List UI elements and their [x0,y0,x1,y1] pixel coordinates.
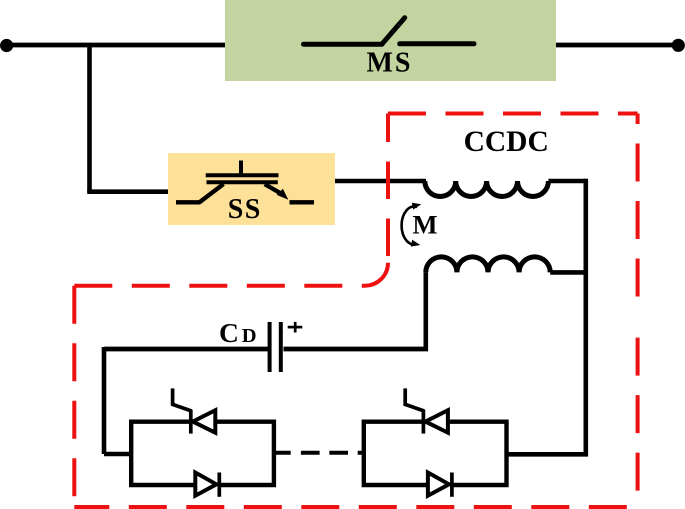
wire L1 to right rail [548,179,585,184]
right terminal node [672,39,685,52]
wire into module 1 [104,452,133,457]
CCDC red dashed boundary notch corner arc [365,263,388,286]
label CD [219,317,257,348]
svg-text:D: D [242,325,257,347]
wire capacitor left [104,347,268,352]
mutual coupling arrow M [402,203,422,247]
wire SS to primary inductor [335,179,426,184]
CCDC red dashed boundary bottom edge [74,505,637,509]
svg-text:C: C [219,317,239,348]
MS bypass switch background box [225,0,556,81]
wire capacitor right [284,347,429,352]
wire L2 left down to capacitor [423,272,428,351]
stub module 1 right [274,451,291,455]
wire junction vertical from top bus [87,43,92,192]
SS solid-state switch background box [168,153,335,225]
CCDC red dashed boundary right edge lower [636,318,640,507]
right vertical rail [583,179,588,457]
diode D1 [195,473,219,497]
CCDC red dashed boundary right edge upper [636,114,640,317]
dashed link between modules [301,451,364,455]
module 2 box [364,422,507,485]
CCDC red dashed boundary top edge [388,112,638,116]
inductor L1 primary winding [425,181,549,196]
CCDC red dashed boundary notch horizontal edge [74,284,365,288]
label SS [228,194,262,225]
wire to SS box [87,189,168,194]
label + polarity [288,322,303,333]
left vertical wire down to module 1 [102,347,107,454]
diode D2 [428,473,452,497]
capacitor CD plates [270,322,281,372]
svg-text:M: M [413,210,438,240]
switch MS [304,18,475,45]
wire module 2 to right rail [507,452,589,457]
label M [413,210,438,240]
label CCDC [464,126,549,158]
CCDC red dashed boundary left edge [72,286,76,507]
inductor L2 secondary winding [426,257,550,273]
CCDC red dashed boundary notch vertical edge [386,114,390,263]
left terminal node [0,39,13,52]
wire MS box to right terminal [556,43,678,48]
IGBT switch SS symbol [176,161,314,203]
svg-text:CCDC: CCDC [464,126,549,158]
label MS [367,48,413,79]
svg-text:MS: MS [367,48,413,79]
svg-text:SS: SS [228,194,262,225]
module 1 box [131,422,274,485]
wire left terminal to MS box [6,43,225,48]
thyristor T2 [405,388,448,433]
thyristor T1 [173,388,216,433]
wire L2 to right rail [550,270,586,275]
